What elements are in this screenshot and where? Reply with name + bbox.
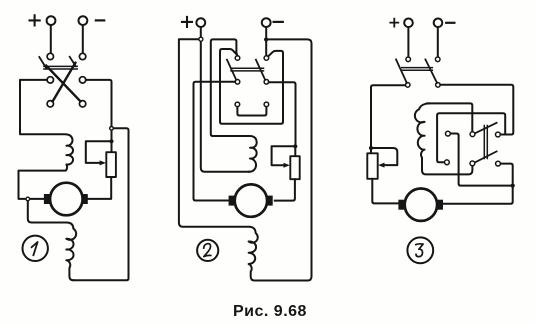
svg-text:Рис. 9.68: Рис. 9.68 [233, 303, 307, 320]
